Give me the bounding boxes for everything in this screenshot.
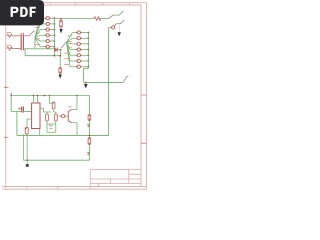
frame tick top	[50, 3, 129, 5]
pin lead S1	[108, 15, 113, 19]
wire drop to rail	[25, 49, 60, 56]
switch S2	[121, 20, 125, 23]
pin lead T1 secondary top	[24, 35, 29, 37]
ground GND2	[118, 25, 120, 33]
connector JP1 circles	[46, 17, 49, 49]
junction rail left	[54, 55, 56, 57]
wire input top	[11, 35, 13, 37]
pin lead input top	[14, 35, 21, 37]
wire fuse F1 stub	[60, 19, 62, 21]
junction rail right	[76, 95, 78, 97]
transformer T1	[21, 33, 23, 50]
junction F1	[60, 18, 62, 20]
junction diode out	[60, 49, 62, 51]
switch S1	[119, 11, 123, 15]
junction rail mid b	[44, 95, 46, 97]
resistor R3	[46, 114, 49, 121]
fuse F3	[88, 115, 91, 121]
C2 dot	[25, 128, 26, 129]
junction rail mid	[49, 95, 51, 97]
fuse F4 dots	[89, 138, 90, 139]
capacitor C1	[22, 107, 24, 113]
wire JP2 pin 1	[67, 33, 77, 43]
ground GND5	[26, 160, 28, 164]
junction F2 rail	[59, 55, 61, 57]
junction VCC left	[10, 95, 12, 97]
ground GND1	[60, 27, 62, 29]
wire diode out	[57, 50, 60, 56]
PDF badge	[0, 0, 44, 25]
relay contact K1	[68, 110, 71, 123]
fuse F2	[59, 68, 62, 74]
wire JP1 right stubs	[50, 18, 55, 47]
wire R3 R4 bottoms	[47, 121, 56, 132]
wire chain bottom	[88, 145, 90, 161]
wire JP2 pin 4	[67, 43, 77, 50]
wire top net	[54, 18, 108, 20]
junction U1 pin B	[37, 95, 39, 97]
net tick	[10, 93, 12, 95]
wire gnd rail bottom	[23, 159, 89, 161]
wire S2 throw	[116, 23, 120, 25]
title block	[90, 170, 141, 190]
wire JP2 pin 6	[67, 43, 77, 62]
wire JP2 pin 5	[67, 43, 77, 56]
wire C1 to U1	[23, 111, 31, 113]
D3 label	[87, 152, 91, 155]
fuse F2 dots	[60, 68, 61, 69]
wire JP1 pin 3	[35, 30, 46, 38]
ground GND4	[85, 82, 87, 84]
lower label	[49, 126, 53, 129]
wire U1 bottom pin	[39, 129, 41, 136]
wire JP2 right stubs	[81, 33, 89, 67]
wire hub drop	[34, 38, 36, 49]
ground GND3	[59, 73, 61, 75]
JP2 pin labels	[64, 36, 72, 65]
wire U1 pin to R3	[40, 108, 51, 114]
pin lead input bottom	[15, 48, 21, 50]
junction U1 pin A	[33, 95, 35, 97]
wire rail to C1	[11, 96, 21, 112]
C1 plus sign	[18, 107, 21, 110]
D2 label	[87, 124, 91, 127]
wire K1 bottom	[72, 123, 78, 136]
wire JP1 pin 4	[35, 35, 46, 38]
wire chain mid	[88, 121, 90, 138]
switch S5	[61, 42, 67, 48]
fuse F1	[60, 20, 63, 27]
wire rail to R2	[50, 96, 54, 104]
LED LED1	[61, 114, 64, 117]
IC U1	[32, 103, 40, 129]
wire VCC rail	[11, 95, 89, 97]
capacitor C2	[25, 128, 28, 135]
LED pin dots	[60, 116, 61, 117]
wire JP2 pin 7	[67, 43, 77, 67]
wire C2 down left	[22, 134, 24, 160]
fuse F1 dots	[60, 21, 61, 22]
junction dots JP2 bus	[88, 32, 90, 68]
wire left gnd vertical	[16, 112, 18, 136]
wire bus JP2	[84, 33, 89, 83]
wire U1 top pin A	[33, 96, 35, 104]
frame tick right	[141, 95, 146, 143]
wire main bus	[17, 134, 109, 136]
pin lead lamp to S2	[114, 24, 117, 27]
pin lead T1 secondary bottom	[24, 48, 26, 50]
junction gnd net	[85, 82, 87, 84]
diode D1	[55, 48, 58, 52]
wire S1 throw	[113, 14, 119, 16]
junction main bus	[89, 135, 91, 137]
frame tick left	[4, 87, 9, 137]
net label input top	[7, 32, 12, 34]
wire JP1 pin 6	[35, 38, 46, 47]
pin lead lamp left	[110, 27, 112, 29]
JP1 pin dots	[45, 18, 51, 48]
frame border	[0, 3, 146, 190]
switch S4	[29, 31, 35, 36]
lamp LP1	[112, 26, 115, 29]
JP2 pin dots	[76, 32, 82, 67]
wire lamp corner	[109, 27, 110, 29]
wire U1 left pin 2	[27, 119, 32, 128]
resistor R1	[94, 17, 101, 20]
JP1 pin labels	[35, 27, 40, 44]
fuse F3 dots	[89, 115, 90, 116]
switch S3	[123, 76, 128, 82]
wire to LED	[57, 115, 68, 117]
frame tick bottom	[27, 186, 58, 189]
wire bus JP1	[53, 18, 55, 56]
net label input bottom	[7, 44, 12, 46]
wire JP2 pin 3	[67, 43, 77, 44]
wire U1 top pin B	[37, 96, 39, 104]
wire right vertical net	[108, 28, 110, 136]
wire JP1 pin 1	[35, 18, 46, 38]
wire JP1 pin 5	[35, 38, 46, 41]
connector JP2 circles	[77, 31, 80, 68]
wire R2 to R4	[54, 109, 56, 114]
PDF badge text	[11, 7, 36, 17]
wire fuse F2 drop	[59, 56, 61, 68]
fuse F4	[88, 138, 91, 145]
wire C2 down right	[26, 134, 28, 160]
wire chain top	[88, 96, 90, 115]
resistor R4	[54, 114, 57, 121]
junction gnd rail	[26, 159, 28, 161]
junction dots JP1 bus	[54, 17, 56, 47]
wire net to switch S3	[84, 81, 124, 83]
wire input bottom	[11, 48, 15, 50]
K1 label	[68, 106, 72, 108]
wire T1 bottom out	[26, 48, 55, 50]
resistor R5 input top	[7, 34, 12, 37]
wire JP1 pin 2	[35, 24, 46, 38]
resistor R6 input bottom	[7, 47, 12, 50]
wire K1 top	[72, 96, 78, 110]
wire JP2 pin 2	[67, 38, 77, 42]
resistor R2	[52, 102, 55, 109]
